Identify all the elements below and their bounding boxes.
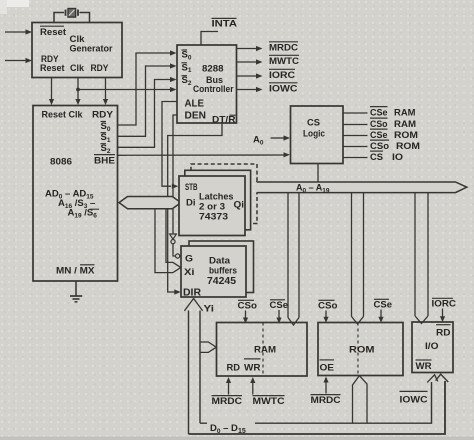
data buffers U5 (74245 x2 stack)	[181, 241, 254, 299]
wire+label MWTC output	[237, 55, 300, 67]
svg-text:ROM: ROM	[349, 345, 375, 356]
bus Yi buffers to data bus	[184, 299, 202, 435]
svg-text:S2: S2	[182, 75, 192, 87]
wire rdy to 8086	[103, 78, 108, 106]
bus A0-A19 address bus	[256, 182, 467, 195]
svg-text:RDY: RDY	[91, 63, 110, 74]
svg-text:RDY: RDY	[92, 110, 114, 121]
svg-text:S0: S0	[182, 50, 192, 62]
wire+label CSo RAM chip select output	[343, 118, 416, 130]
svg-text:DEN: DEN	[185, 111, 207, 122]
svg-text:RAM: RAM	[254, 345, 276, 356]
svg-text:INTA: INTA	[212, 19, 238, 30]
svg-text:Yi: Yi	[204, 304, 215, 315]
wire S2 status line	[118, 77, 177, 147]
svg-text:Xi: Xi	[184, 267, 195, 278]
svg-text:IO: IO	[392, 152, 403, 163]
CS logic block U6	[291, 106, 344, 164]
label D0-D15	[207, 420, 255, 435]
svg-text:OE: OE	[320, 363, 335, 374]
wire+label IOWC output	[237, 83, 298, 95]
svg-text:CSe: CSe	[270, 300, 289, 311]
svg-text:8288: 8288	[202, 63, 224, 74]
svg-text:ROM: ROM	[396, 141, 420, 152]
svg-text:MRDC: MRDC	[212, 396, 243, 407]
wire CS logic to address bus	[317, 164, 319, 183]
label+wire A0 input	[253, 135, 290, 147]
RAM block (odd/even banks)	[217, 323, 308, 377]
wire+label CSe ROM chip select output	[343, 129, 418, 141]
svg-text:RAM: RAM	[394, 119, 416, 130]
svg-text:Generator: Generator	[70, 44, 113, 55]
svg-text:CSe: CSe	[374, 300, 393, 311]
svg-text:CSo: CSo	[370, 141, 389, 152]
svg-text:RD: RD	[436, 328, 451, 339]
label+wire MRDC into ROM OE	[311, 377, 341, 407]
wire+label CSe RAM chip select output	[343, 107, 416, 119]
bus tap A to I/O	[415, 193, 428, 324]
bus tap A to ROM	[352, 193, 364, 324]
wire reset to 8086	[49, 78, 54, 106]
svg-text:A0: A0	[253, 135, 264, 147]
svg-text:IOWC: IOWC	[269, 84, 298, 95]
wire+label CSo ROM chip select output	[343, 140, 420, 152]
wire+label CS IO chip select output	[343, 151, 403, 163]
svg-text:S0: S0	[101, 121, 111, 133]
bus branch to Xi buffers	[155, 209, 181, 273]
scan page bottom edge (decorative)	[0, 437, 474, 440]
wire clk to 8288	[78, 87, 177, 92]
svg-text:RAM: RAM	[394, 108, 416, 119]
svg-text:74245: 74245	[207, 276, 236, 287]
svg-text:RD: RD	[227, 363, 241, 374]
crystal X1	[54, 9, 90, 24]
microprocessor U2 (8086)	[33, 106, 118, 282]
svg-text:IORC: IORC	[432, 299, 457, 310]
wire+label MRDC output	[237, 42, 299, 54]
svg-text:Reset: Reset	[40, 63, 65, 74]
svg-text:8086: 8086	[50, 157, 72, 168]
svg-text:I/O: I/O	[425, 341, 439, 352]
wire rdy reset input arrow	[5, 58, 32, 63]
label INTA	[212, 18, 238, 29]
label+wire CSe into RAM	[270, 300, 289, 324]
bus D0-D15 bottom line with arrow into I/O	[189, 374, 449, 434]
svg-text:S1: S1	[182, 62, 192, 74]
label+wire CSo into ROM	[318, 300, 338, 323]
svg-text:Logic: Logic	[303, 129, 325, 140]
wire INTA stub	[201, 32, 218, 46]
svg-text:IOWC: IOWC	[400, 395, 428, 406]
label+wire CSo into RAM	[238, 300, 258, 323]
svg-text:CSe: CSe	[370, 130, 388, 141]
label IOWC	[400, 391, 428, 405]
svg-text:CSo: CSo	[238, 301, 258, 312]
wire DT/R to DIR	[168, 123, 222, 295]
bus controller U3 (8288)	[177, 45, 237, 126]
svg-text:MN / MX: MN / MX	[56, 265, 95, 276]
svg-text:CS: CS	[307, 117, 320, 128]
bus D0-D15 top line with IOWC arrow into I/O	[200, 375, 438, 423]
svg-text:Reset Clk: Reset Clk	[42, 110, 84, 121]
svg-text:STB: STB	[185, 182, 198, 192]
bus tap D into ROM	[353, 376, 368, 423]
svg-text:CSo: CSo	[318, 301, 338, 312]
wire reset input arrow	[5, 29, 32, 34]
I/O block	[412, 322, 453, 373]
wire clk to 8086	[75, 78, 80, 106]
wire ALE to STB	[162, 102, 178, 189]
label+wire MWTC into RAM WR	[250, 377, 284, 407]
svg-text:DIR: DIR	[183, 288, 201, 299]
svg-text:Qi: Qi	[234, 200, 245, 211]
label+wire CSe into ROM	[374, 299, 393, 323]
svg-text:Clk: Clk	[70, 63, 85, 74]
svg-text:CS: CS	[370, 152, 383, 163]
svg-text:MWTC: MWTC	[269, 56, 299, 67]
svg-text:WR: WR	[416, 361, 432, 372]
bus tap A to RAM	[288, 193, 299, 325]
wire DEN to G enable	[170, 115, 181, 258]
svg-text:ALE: ALE	[185, 99, 205, 110]
wire S1 status line	[118, 63, 177, 136]
svg-text:ROM: ROM	[394, 130, 418, 141]
svg-text:Di: Di	[186, 197, 196, 208]
bus branch data into RAM side	[200, 342, 216, 352]
svg-text:G: G	[185, 254, 193, 265]
wire S0 status line	[118, 50, 177, 125]
svg-text:MWTC: MWTC	[253, 396, 285, 407]
ground	[70, 281, 82, 302]
wire BHE to CS logic	[118, 152, 290, 157]
bus AD0-AD15 8086 to latches (double arrow)	[119, 197, 181, 209]
svg-text:CSo: CSo	[370, 119, 388, 130]
scan page corner highlight (decorative)	[0, 0, 29, 14]
svg-text:DT/R: DT/R	[212, 115, 236, 126]
svg-text:S2: S2	[101, 143, 111, 155]
ROM block (odd/even)	[318, 323, 403, 376]
label+wire MRDC into RAM RD	[212, 377, 243, 407]
label Yi	[204, 304, 215, 315]
svg-text:Reset: Reset	[40, 27, 67, 38]
label+wire IORC into I/O	[432, 298, 457, 322]
svg-text:CSe: CSe	[370, 108, 388, 119]
svg-text:Controller: Controller	[193, 84, 234, 95]
clock generator U1 (Clk Generator)	[32, 23, 122, 78]
latches U4 (74373 x3 stack)	[179, 164, 257, 236]
svg-text:MRDC: MRDC	[269, 43, 298, 54]
svg-text:WR: WR	[244, 362, 261, 373]
svg-text:74373: 74373	[199, 212, 228, 223]
svg-text:IORC: IORC	[269, 70, 295, 81]
svg-text:MRDC: MRDC	[311, 395, 341, 406]
wire+label IORC output	[237, 69, 296, 81]
svg-text:BHE: BHE	[94, 156, 115, 167]
